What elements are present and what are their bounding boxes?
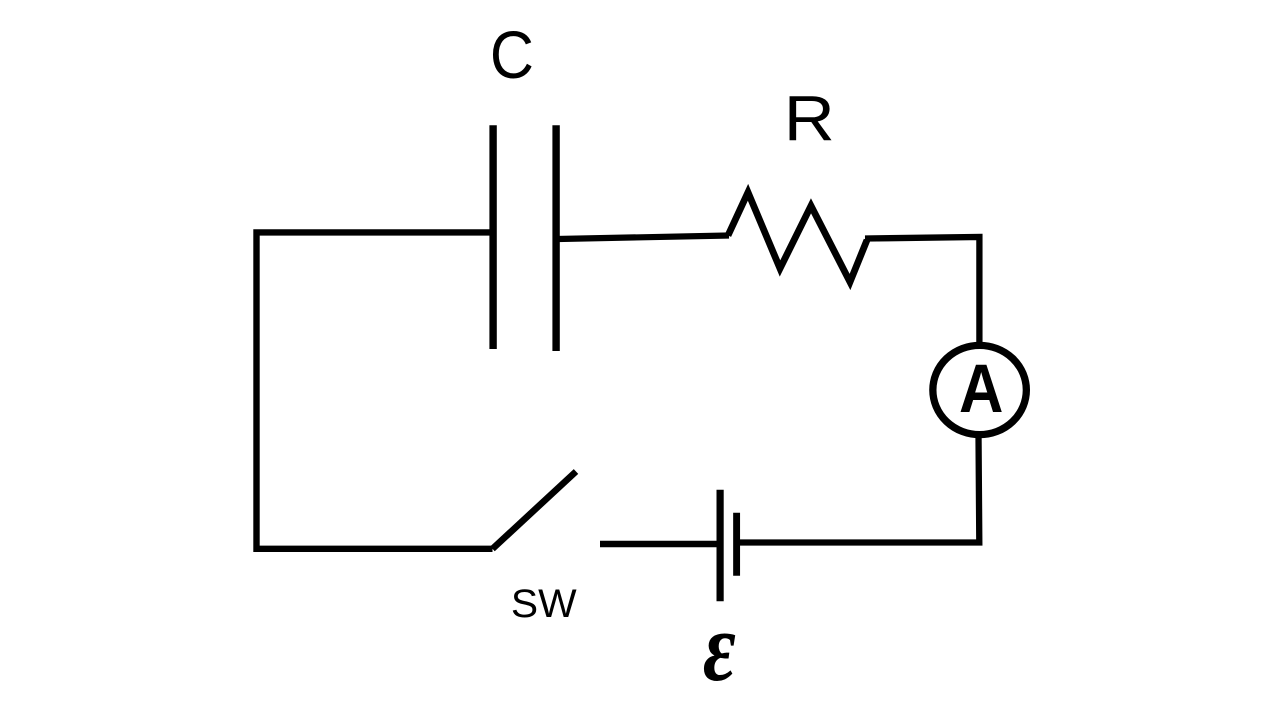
label C: [490, 17, 534, 92]
wire battery to switch stub: [600, 541, 717, 547]
switch SW blade: [493, 472, 577, 549]
resistor R zigzag: [728, 192, 867, 282]
label R: [784, 84, 835, 155]
capacitor C right plate: [552, 125, 559, 351]
battery long plate (positive): [716, 490, 723, 602]
svg-text:ε: ε: [703, 593, 736, 702]
label EMF epsilon: [703, 593, 736, 702]
wire capacitor to resistor: [558, 236, 729, 240]
svg-text:C: C: [490, 17, 534, 92]
wire resistor to ammeter (top-right corner): [865, 237, 979, 346]
svg-text:R: R: [784, 84, 835, 155]
ammeter U1 circle: [933, 345, 1027, 434]
svg-text:SW: SW: [511, 581, 577, 625]
capacitor C left plate: [489, 125, 496, 349]
wire ammeter to battery (bottom-right corner): [740, 434, 979, 543]
svg-text:A: A: [959, 350, 1003, 427]
wire left loop (top-left horizontal, left vertical, bottom-left horizontal): [257, 232, 493, 548]
ammeter label A: [959, 350, 1003, 427]
battery short plate (negative): [733, 513, 740, 576]
label SW: [511, 581, 577, 625]
